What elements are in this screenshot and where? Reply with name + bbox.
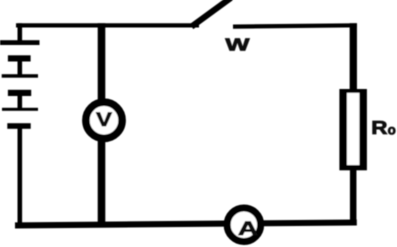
svg-text:V: V xyxy=(96,108,112,130)
svg-text:R: R xyxy=(371,118,387,139)
svg-text:A: A xyxy=(238,218,258,240)
svg-text:o: o xyxy=(388,123,396,138)
svg-text:W: W xyxy=(225,34,249,54)
